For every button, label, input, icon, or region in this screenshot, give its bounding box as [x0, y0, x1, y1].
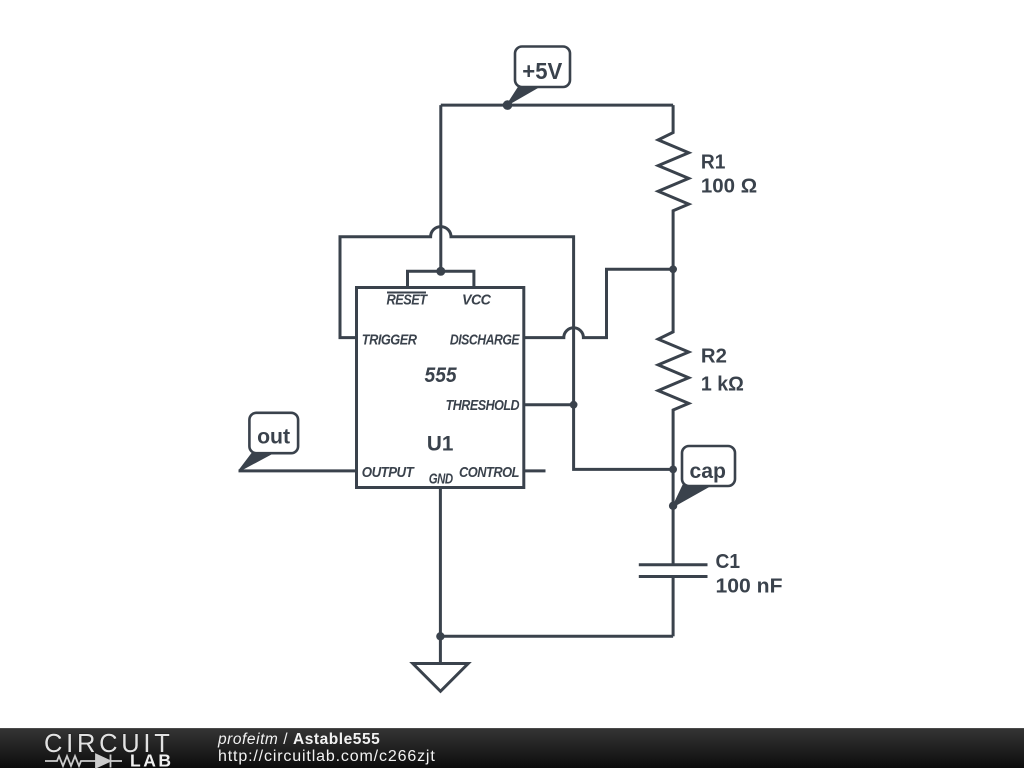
svg-text:GND: GND: [429, 471, 454, 488]
svg-text:100 Ω: 100 Ω: [701, 176, 757, 198]
svg-text:OUTPUT: OUTPUT: [362, 464, 416, 481]
svg-text:VCC: VCC: [462, 292, 492, 309]
svg-text:CONTROL: CONTROL: [459, 464, 519, 481]
net label out bubble: [240, 413, 299, 471]
pin RESET (with overline): [387, 292, 429, 309]
node A +5V attach dot: [503, 100, 513, 110]
node RESET-VCC tie junction: [436, 267, 445, 276]
net label cap bubble: [674, 446, 735, 506]
wire THRESHOLD pin stub: [524, 403, 574, 406]
svg-text:100 nF: 100 nF: [716, 576, 783, 598]
footer url text: [218, 748, 436, 766]
footer bar: [0, 728, 1024, 768]
svg-text:out: out: [257, 426, 290, 449]
wire GND pin vertical: [439, 488, 442, 637]
wire left vertical from +5V rail to RESET/VCC tie: [439, 105, 442, 271]
svg-text:THRESHOLD: THRESHOLD: [446, 397, 520, 414]
svg-text:U1: U1: [427, 432, 454, 456]
wire +5V rail top horizontal: [441, 104, 673, 107]
wire bottom ground rail: [440, 635, 673, 638]
svg-text:TRIGGER: TRIGGER: [362, 332, 417, 349]
wire RESET-VCC tie bracket: [408, 271, 474, 287]
resistor R2: [658, 269, 689, 469]
capacitor C1: [639, 565, 708, 637]
wire cap junction down to capacitor: [672, 469, 675, 564]
resistor R1: [658, 105, 689, 269]
wire DISCHARGE net (hop over trigger wire, up to R1/R2 junction): [524, 269, 673, 337]
power label +5V bubble: [508, 47, 570, 105]
wire CONTROL pin stub: [524, 469, 546, 472]
svg-text:+5V: +5V: [522, 58, 563, 84]
footer title text: [218, 731, 380, 749]
wire TRIGGER to THRESHOLD net (with hop over vertical wire): [340, 227, 574, 405]
svg-text:LAB: LAB: [130, 751, 174, 769]
node cap label attach dot: [669, 502, 677, 510]
svg-text:C1: C1: [716, 551, 741, 573]
node GND junction: [436, 632, 444, 640]
logo CircuitLab: [0, 729, 200, 769]
svg-text:DISCHARGE: DISCHARGE: [450, 332, 521, 349]
svg-text:R2: R2: [701, 346, 727, 368]
node THRESHOLD junction: [570, 401, 578, 409]
wire OUTPUT pin: [239, 469, 357, 472]
ground: [413, 636, 468, 691]
svg-text:RESET: RESET: [387, 292, 429, 309]
label R2 value: [701, 346, 744, 396]
label R1 value: [701, 152, 757, 198]
node R2-C1-THRESHOLD junction: [669, 466, 677, 474]
node R1-R2-DISCHARGE junction: [669, 265, 677, 273]
svg-text:cap: cap: [690, 460, 727, 483]
svg-text:1 kΩ: 1 kΩ: [701, 374, 744, 396]
op-amp U1 555 IC box: [357, 288, 524, 488]
label C1 value: [716, 551, 783, 598]
svg-text:R1: R1: [701, 152, 726, 174]
svg-text:555: 555: [425, 363, 458, 387]
wire THRESHOLD node down to cap junction: [574, 405, 674, 470]
